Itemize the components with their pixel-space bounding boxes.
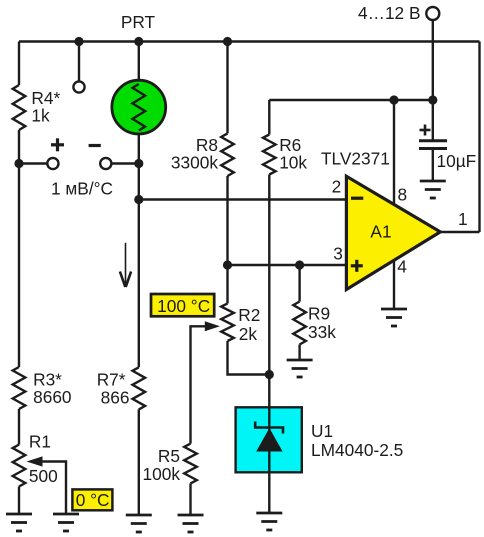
resistor R6 bbox=[263, 135, 276, 175]
svg-text:866: 866 bbox=[101, 388, 130, 408]
svg-text:4: 4 bbox=[397, 257, 407, 277]
wire R1 to ground bbox=[18, 487, 20, 515]
svg-text:33k: 33k bbox=[308, 322, 336, 342]
svg-text:10k: 10k bbox=[279, 153, 307, 173]
svg-text:LM4040-2.5: LM4040-2.5 bbox=[311, 440, 403, 460]
resistor R7 bbox=[133, 367, 146, 409]
resistor R4 bbox=[13, 85, 26, 130]
voltage reference U1 box bbox=[236, 407, 302, 472]
wire R1 wiper to ground bbox=[40, 462, 66, 515]
svg-text:10µF: 10µF bbox=[437, 151, 477, 171]
node pin2 wire bbox=[134, 195, 143, 204]
resistor R8 bbox=[221, 133, 234, 176]
potentiometer R2 wiper arrow bbox=[205, 321, 220, 331]
svg-text:2: 2 bbox=[332, 176, 342, 196]
svg-text:1 мВ/°C: 1 мВ/°C bbox=[51, 179, 113, 199]
wire inverting input pin 2 bbox=[139, 198, 347, 200]
op-amp minus input symbol bbox=[351, 197, 363, 200]
svg-text:2k: 2k bbox=[239, 324, 258, 344]
wire op-amp pin 4 to ground bbox=[393, 260, 395, 309]
ground (R9) bbox=[287, 360, 313, 377]
svg-text:4…12 В: 4…12 В bbox=[358, 3, 420, 23]
ground (left column) bbox=[6, 514, 32, 531]
open terminal circles bbox=[47, 7, 439, 169]
ground (capacitor) bbox=[420, 181, 446, 198]
wire R9 top bbox=[298, 265, 300, 302]
wire top to R8 bbox=[226, 42, 228, 134]
capacitor plus polarity mark bbox=[420, 125, 431, 136]
svg-text:R9: R9 bbox=[308, 304, 330, 324]
wire capacitor to ground bbox=[432, 149, 434, 182]
wire left column middle bbox=[18, 130, 20, 367]
node PRT top bbox=[134, 37, 143, 46]
wire plus terminal bbox=[19, 162, 47, 164]
node top-terminal stub bbox=[74, 37, 83, 46]
svg-text:PRT: PRT bbox=[121, 12, 156, 32]
current direction arrow bbox=[125, 243, 127, 285]
wire op-amp pin 8 supply bbox=[393, 100, 395, 205]
potentiometer R1 track bbox=[13, 445, 26, 487]
wire R8 to R2 bbox=[226, 176, 228, 304]
wire top to PRT bbox=[138, 42, 140, 85]
junction node dots bbox=[14, 37, 437, 379]
resistor R5 bbox=[184, 444, 197, 484]
terminal calibration stub bbox=[73, 81, 84, 92]
wire top feedback rail bbox=[19, 40, 480, 42]
wire R7 to ground bbox=[138, 409, 140, 515]
potentiometer R2 track bbox=[221, 304, 234, 342]
terminal power input bbox=[426, 7, 439, 20]
label output plus sign bbox=[51, 138, 64, 151]
wire R9 to ground bbox=[298, 345, 300, 361]
wire non-inverting input pin 3 bbox=[228, 264, 347, 266]
calibration label 0C bbox=[72, 489, 112, 510]
label output minus sign bbox=[89, 144, 101, 147]
wire R2 bottom to reference node bbox=[228, 341, 270, 375]
wire power terminal to capacitor bbox=[432, 20, 434, 141]
ground (op-amp pin 4) bbox=[381, 309, 407, 326]
ground (U1) bbox=[256, 513, 282, 530]
svg-text:0 °C: 0 °C bbox=[76, 490, 110, 510]
node plus terminal bbox=[14, 159, 23, 168]
wire R5 to ground bbox=[189, 483, 191, 515]
wire op-amp output to feedback bbox=[440, 231, 479, 233]
node R2 top / pin3 bbox=[223, 260, 232, 269]
potentiometer R1 wiper arrow bbox=[27, 456, 43, 466]
svg-text:U1: U1 bbox=[311, 421, 333, 441]
wire R2 wiper to R5 bbox=[191, 326, 208, 443]
node R8 top bbox=[223, 37, 232, 46]
terminal output plus bbox=[47, 158, 58, 169]
svg-text:100k: 100k bbox=[143, 464, 181, 484]
resistor R9 bbox=[293, 302, 306, 345]
svg-text:R5: R5 bbox=[158, 446, 180, 466]
svg-text:R1: R1 bbox=[29, 432, 51, 452]
ground (R1 wiper) bbox=[53, 514, 79, 531]
svg-text:R2: R2 bbox=[238, 305, 260, 325]
node capacitor supply bbox=[428, 95, 437, 104]
svg-text:1: 1 bbox=[458, 209, 468, 229]
wire left column top bbox=[18, 42, 20, 86]
wire through U1 to ground bbox=[268, 407, 270, 513]
svg-text:1k: 1k bbox=[31, 106, 50, 126]
svg-text:R7*: R7* bbox=[97, 370, 126, 390]
wire supply rail to R6 bbox=[268, 100, 270, 135]
svg-text:8: 8 bbox=[398, 185, 408, 205]
wire PRT bottom column bbox=[138, 130, 140, 367]
svg-text:500: 500 bbox=[29, 466, 58, 486]
node reference 2.5V bbox=[265, 370, 274, 379]
calibration label 100C bbox=[151, 294, 214, 316]
svg-text:100 °C: 100 °C bbox=[157, 296, 210, 316]
svg-text:3300k: 3300k bbox=[171, 153, 218, 173]
svg-text:A1: A1 bbox=[370, 221, 391, 241]
svg-text:TLV2371: TLV2371 bbox=[321, 148, 390, 168]
resistor R3 bbox=[13, 367, 26, 409]
wire R6 column through reference node to U1 bbox=[268, 175, 270, 408]
op-amp plus input symbol bbox=[351, 260, 363, 272]
sensor PRT (platinum resistance thermometer) bbox=[112, 80, 166, 134]
wire R3 to R1 bbox=[18, 409, 20, 445]
node pin8 supply bbox=[389, 95, 398, 104]
ground (R7) bbox=[126, 515, 152, 532]
svg-text:3: 3 bbox=[333, 244, 343, 264]
node minus terminal bbox=[134, 159, 143, 168]
op-amp A1 bbox=[346, 176, 440, 289]
node R9 top bbox=[295, 260, 304, 269]
ground (R5) bbox=[178, 515, 204, 532]
zener diode of U1 bbox=[255, 422, 283, 434]
svg-text:8660: 8660 bbox=[33, 387, 71, 407]
wire right feedback vertical bbox=[478, 42, 480, 233]
capacitor C1 plates bbox=[419, 141, 447, 149]
wire stub to open terminal bbox=[78, 42, 80, 82]
wire positive supply rail bbox=[269, 99, 433, 101]
terminal output minus bbox=[100, 158, 111, 169]
wire minus terminal bbox=[111, 162, 138, 164]
